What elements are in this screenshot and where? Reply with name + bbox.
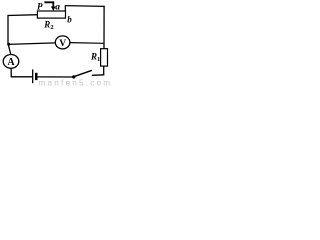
resistor R1 xyxy=(101,49,108,66)
switch xyxy=(72,70,92,78)
svg-text:A: A xyxy=(7,57,15,68)
voltmeter V xyxy=(55,36,70,49)
wire voltmeter right lead xyxy=(70,42,104,45)
svg-text:a: a xyxy=(55,2,60,12)
wire right bottom vertical xyxy=(103,66,105,75)
svg-text:R2: R2 xyxy=(43,19,53,31)
wire bottom left xyxy=(11,76,33,78)
wire switch right xyxy=(92,74,104,77)
wire top-left horizontal xyxy=(8,14,38,17)
wire left vertical lower xyxy=(8,44,11,55)
ammeter A xyxy=(3,55,19,69)
wire left vertical upper xyxy=(7,15,9,45)
wire battery to switch xyxy=(38,76,74,78)
slider P arrow xyxy=(44,2,55,11)
svg-text:P: P xyxy=(37,1,43,11)
svg-text:R1: R1 xyxy=(90,52,100,64)
wire right vertical upper xyxy=(103,6,105,49)
battery cell xyxy=(33,69,38,83)
svg-text:V: V xyxy=(59,39,66,49)
wire voltmeter left lead xyxy=(8,43,55,45)
node junction voltmeter tap xyxy=(7,43,10,46)
rheostat R2 body xyxy=(37,11,65,18)
wire top right horizontal xyxy=(65,5,105,8)
wire rheostat right stub xyxy=(64,5,66,11)
wire ammeter bottom lead xyxy=(10,68,12,77)
svg-text:b: b xyxy=(67,14,72,24)
svg-text:manfen5.com: manfen5.com xyxy=(39,79,111,88)
